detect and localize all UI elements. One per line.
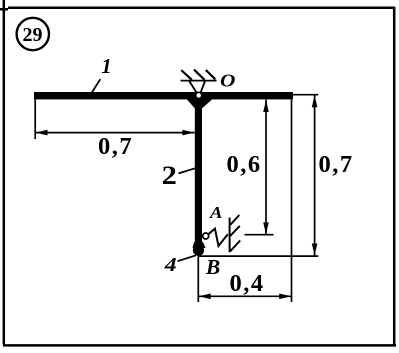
pivot dot B with fillet [193,242,206,256]
svg-text:O: O [220,72,235,91]
dimension 0,7 right: arrowheads [312,95,318,255]
svg-text:4: 4 [164,254,177,276]
leader line for label 4 [178,255,197,261]
support A: hatching [230,215,240,251]
pin support at O: hatch base line [181,80,217,82]
pin support at O: triangle legs [189,81,205,93]
dimension 0,6: extension line at A level [245,234,274,236]
dimension 0,7 right: dimension line [314,95,316,256]
pin circle at O [196,92,202,98]
support A: wavy link [209,229,228,246]
dimension 0,7 left: dimension line [35,132,194,134]
bar 2 (vertical rod) [195,99,202,250]
svg-text:B: B [205,255,220,279]
svg-text:1: 1 [101,54,112,78]
svg-text:29: 29 [23,24,43,46]
dimension 0,4: dimension line [198,295,291,297]
dimension 0,4: extension line below bar end [291,100,293,303]
leader line for label 1 [92,79,100,92]
svg-text:2: 2 [162,162,177,191]
dimension 0,7 left: extension line [34,100,36,140]
dimension 0,6: arrowheads [263,100,269,234]
bar 1 (horizontal rod) [34,92,293,99]
dimension 0,7 right: extension line at bar level [293,94,318,96]
dimension 0,4: extension line below B [197,255,199,302]
dimension 0,7 right: extension line at B level [199,255,318,257]
pin circle at A [203,233,209,239]
svg-text:A: A [209,203,223,222]
svg-text:0,7: 0,7 [318,151,353,178]
dimension 0,7 left: arrowheads [36,130,195,136]
svg-text:0,6: 0,6 [226,151,261,178]
dimension 0,6: dimension line [265,100,267,235]
dimension 0,4: arrowheads [199,294,292,300]
leader line for label 2 [179,168,196,173]
support A: wall line [229,218,231,253]
svg-text:0,4: 0,4 [229,270,264,297]
svg-text:0,7: 0,7 [98,133,133,160]
pin support at O: hatching [181,70,215,80]
junction fillet at O [187,99,213,109]
problem number 29 [17,18,49,50]
